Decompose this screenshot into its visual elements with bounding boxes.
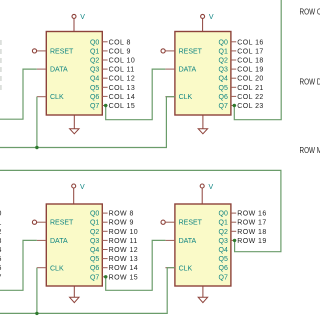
svg-text:Q3: Q3 <box>219 67 228 74</box>
svg-text:ROW 12: ROW 12 <box>109 247 139 254</box>
wire U1 DATA from off-image left <box>0 69 37 119</box>
svg-text:COL 8: COL 8 <box>109 39 131 46</box>
svg-text:CLK: CLK <box>50 94 64 101</box>
shift register U3 body <box>46 204 102 286</box>
U2 ground <box>198 115 207 134</box>
U1 right pin stubs Q0-Q7 <box>102 42 107 106</box>
svg-text:CLK: CLK <box>179 265 193 272</box>
svg-text:Q5: Q5 <box>90 85 99 92</box>
U3 power V symbol <box>72 184 85 204</box>
U1 RESET bubble <box>32 49 36 53</box>
svg-text:Q1: Q1 <box>219 48 228 55</box>
svg-text:V: V <box>80 14 85 21</box>
svg-text:RESET: RESET <box>179 48 203 55</box>
svg-text:Q4: Q4 <box>90 76 99 83</box>
wire row19 net from off-image left to U4 Q3 <box>0 170 281 251</box>
svg-text:ROW 14: ROW 14 <box>109 265 139 272</box>
U1 power V symbol <box>72 14 85 31</box>
U1 output labels COL 8..15 <box>109 39 136 110</box>
junction U1 Q7 <box>104 104 107 107</box>
svg-text:ROW 17: ROW 17 <box>237 220 267 227</box>
svg-text:COL 20: COL 20 <box>237 76 264 83</box>
shift register U1 body <box>46 32 102 116</box>
svg-text:COL 13: COL 13 <box>109 85 136 92</box>
svg-text:Q7: Q7 <box>90 103 99 110</box>
wire bottom clock bus to U4 CLK <box>0 268 175 314</box>
svg-text:COL 16: COL 16 <box>237 39 264 46</box>
svg-text:ROW D: ROW D <box>300 77 320 86</box>
svg-text:CLK: CLK <box>50 265 64 272</box>
svg-text:COL 17: COL 17 <box>237 48 264 55</box>
junction U4 Q3 <box>233 239 236 242</box>
svg-text:ROW M: ROW M <box>300 146 320 155</box>
svg-text:ROW 10: ROW 10 <box>109 229 139 236</box>
wire chain U1 Q7 to U2 DATA <box>106 69 166 120</box>
U2 RESET bubble <box>161 49 165 53</box>
svg-text:Q1: Q1 <box>90 48 99 55</box>
svg-text:Q0: Q0 <box>90 39 99 46</box>
U3 RESET bubble <box>32 220 36 224</box>
svg-text:COL 18: COL 18 <box>237 58 264 65</box>
wire U3 CLK down to bottom clock bus <box>36 268 38 314</box>
U4 RESET bubble <box>161 220 165 224</box>
svg-text:Q6: Q6 <box>219 265 228 272</box>
U3 output labels ROW 8..15 <box>109 211 139 282</box>
svg-text:Q1: Q1 <box>90 220 99 227</box>
svg-text:Q7: Q7 <box>219 103 228 110</box>
svg-text:V: V <box>209 14 214 21</box>
svg-text:COL 12: COL 12 <box>109 76 136 83</box>
svg-text:Q3: Q3 <box>90 67 99 74</box>
svg-text:Q4: Q4 <box>219 76 228 83</box>
U2 right pin stubs Q0-Q7 <box>231 42 236 106</box>
svg-text:Q2: Q2 <box>219 58 228 65</box>
svg-text:Q7: Q7 <box>219 274 228 281</box>
left-edge clipped labels of off-image chip <box>0 211 2 282</box>
svg-text:Q2: Q2 <box>219 229 228 236</box>
svg-text:Q5: Q5 <box>219 85 228 92</box>
svg-text:COL 14: COL 14 <box>109 94 136 101</box>
svg-text:COL 19: COL 19 <box>237 67 264 74</box>
svg-text:Q0: Q0 <box>90 211 99 218</box>
svg-text:Q5: Q5 <box>90 256 99 263</box>
svg-text:V: V <box>80 184 85 191</box>
svg-text:ROW 19: ROW 19 <box>237 238 267 245</box>
wire U1 CLK down to clock bus <box>36 97 38 148</box>
svg-text:ROW 18: ROW 18 <box>237 229 267 236</box>
U4 output labels ROW 16..19 <box>237 211 267 245</box>
svg-text:Q1: Q1 <box>219 220 228 227</box>
junction U1 CLK on bus <box>35 146 38 149</box>
svg-text:Q5: Q5 <box>219 256 228 263</box>
U3 ground <box>70 286 79 303</box>
svg-text:Q6: Q6 <box>90 265 99 272</box>
svg-text:COL 9: COL 9 <box>109 48 131 55</box>
svg-text:ROW 0: ROW 0 <box>0 211 2 218</box>
svg-text:COL 10: COL 10 <box>109 58 136 65</box>
svg-text:Q3: Q3 <box>90 238 99 245</box>
U4 left pin stubs <box>165 222 175 268</box>
shift register U4 body <box>175 204 231 286</box>
svg-text:COL 15: COL 15 <box>109 103 136 110</box>
svg-text:COL 22: COL 22 <box>237 94 264 101</box>
U1 ground <box>70 115 79 134</box>
U1 left pin stubs <box>37 51 47 97</box>
svg-text:ROW 13: ROW 13 <box>109 256 139 263</box>
svg-text:ROW 9: ROW 9 <box>109 220 134 227</box>
wire U3 DATA from off-image left <box>0 240 37 290</box>
svg-text:ROW 4: ROW 4 <box>0 247 2 254</box>
svg-text:ROW 5: ROW 5 <box>0 256 2 263</box>
svg-text:ROW C: ROW C <box>300 7 320 16</box>
svg-text:COL 23: COL 23 <box>237 103 264 110</box>
svg-text:ROW 3: ROW 3 <box>0 238 2 245</box>
junction U2 Q7 <box>233 104 236 107</box>
svg-text:Q0: Q0 <box>219 39 228 46</box>
U4 right pin stubs Q0-Q3 <box>231 213 236 240</box>
U3 right pin stubs Q0-Q7 <box>102 213 107 277</box>
svg-text:Q4: Q4 <box>90 247 99 254</box>
junction U3 CLK on bottom bus <box>35 312 38 315</box>
U4 ground <box>198 286 207 303</box>
svg-text:Q2: Q2 <box>90 229 99 236</box>
svg-text:RESET: RESET <box>50 48 74 55</box>
svg-text:Q2: Q2 <box>90 58 99 65</box>
svg-text:Q6: Q6 <box>219 94 228 101</box>
svg-text:DATA: DATA <box>179 238 197 245</box>
wire chain U3 Q7 to U4 DATA <box>106 240 166 290</box>
svg-text:COL 21: COL 21 <box>237 85 264 92</box>
svg-text:ROW 2: ROW 2 <box>0 229 2 236</box>
wire top clock bus to U2 CLK <box>0 97 175 148</box>
svg-text:Q0: Q0 <box>219 211 228 218</box>
junction U3 Q7 <box>104 275 107 278</box>
svg-text:ROW 11: ROW 11 <box>109 238 138 245</box>
U2 output labels COL 16..23 <box>237 39 264 110</box>
svg-text:RESET: RESET <box>50 220 74 227</box>
svg-text:Q7: Q7 <box>90 274 99 281</box>
svg-text:ROW 15: ROW 15 <box>109 274 139 281</box>
U3 left pin stubs <box>37 222 47 268</box>
U2 power V symbol <box>201 14 214 31</box>
svg-text:Q4: Q4 <box>219 247 228 254</box>
svg-text:Q6: Q6 <box>90 94 99 101</box>
svg-text:ROW 8: ROW 8 <box>109 211 134 218</box>
svg-text:Q3: Q3 <box>219 238 228 245</box>
svg-text:ROW 1: ROW 1 <box>0 220 2 227</box>
svg-text:DATA: DATA <box>50 67 68 74</box>
svg-text:V: V <box>209 184 214 191</box>
svg-text:ROW 16: ROW 16 <box>237 211 267 218</box>
left-edge faint ghost marks top <box>0 40 2 90</box>
svg-text:ROW 7: ROW 7 <box>0 274 2 281</box>
wire U2 Q7 up off-image top <box>234 0 281 120</box>
svg-text:CLK: CLK <box>179 94 193 101</box>
svg-text:ROW 6: ROW 6 <box>0 265 2 272</box>
svg-text:DATA: DATA <box>50 238 68 245</box>
U4 power V symbol <box>200 184 213 204</box>
U2 left pin stubs <box>165 51 175 97</box>
svg-text:DATA: DATA <box>179 67 197 74</box>
shift register U2 body <box>175 32 231 116</box>
svg-text:RESET: RESET <box>179 220 203 227</box>
svg-text:COL 11: COL 11 <box>109 67 135 74</box>
